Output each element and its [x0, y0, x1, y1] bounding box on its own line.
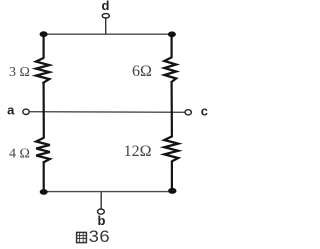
- wire stub to node d: [105, 18, 107, 35]
- svg-text:a: a: [7, 103, 15, 118]
- svg-text:6Ω: 6Ω: [132, 63, 152, 80]
- wire right branch lower lead: [171, 161, 173, 192]
- wire stub to node b: [100, 192, 102, 209]
- resistor R1 3ohm zigzag: [36, 58, 49, 83]
- wire left branch middle lead: [42, 83, 44, 139]
- caption figure 36: [77, 227, 110, 246]
- wire middle horizontal a-c: [29, 111, 185, 114]
- wire right branch middle lead: [171, 82, 173, 137]
- svg-text:d: d: [102, 0, 110, 13]
- junction bottom-right: [168, 188, 176, 194]
- resistor R4 12ohm zigzag: [164, 136, 178, 161]
- wire top horizontal d-rail: [43, 33, 172, 35]
- junction top-right: [168, 31, 176, 37]
- wire left branch lower lead: [43, 162, 45, 192]
- terminal circle node d: [102, 14, 109, 18]
- resistor R2 6ohm zigzag: [164, 57, 176, 82]
- wire left branch upper lead: [42, 34, 44, 59]
- terminal circle node a: [23, 109, 29, 114]
- terminal circle node c: [185, 110, 191, 115]
- svg-text:c: c: [201, 104, 208, 119]
- svg-text:12Ω: 12Ω: [124, 143, 152, 160]
- svg-text:3 Ω: 3 Ω: [9, 65, 30, 80]
- junction bottom-left: [40, 189, 48, 195]
- resistor R3 4ohm zigzag: [36, 138, 50, 162]
- svg-text:36: 36: [89, 227, 110, 246]
- wire bottom horizontal b-rail: [43, 191, 173, 193]
- junction top-left: [40, 31, 48, 37]
- svg-text:4 Ω: 4 Ω: [9, 146, 30, 161]
- terminal circle node b: [98, 209, 105, 214]
- wire right branch upper lead: [171, 34, 173, 58]
